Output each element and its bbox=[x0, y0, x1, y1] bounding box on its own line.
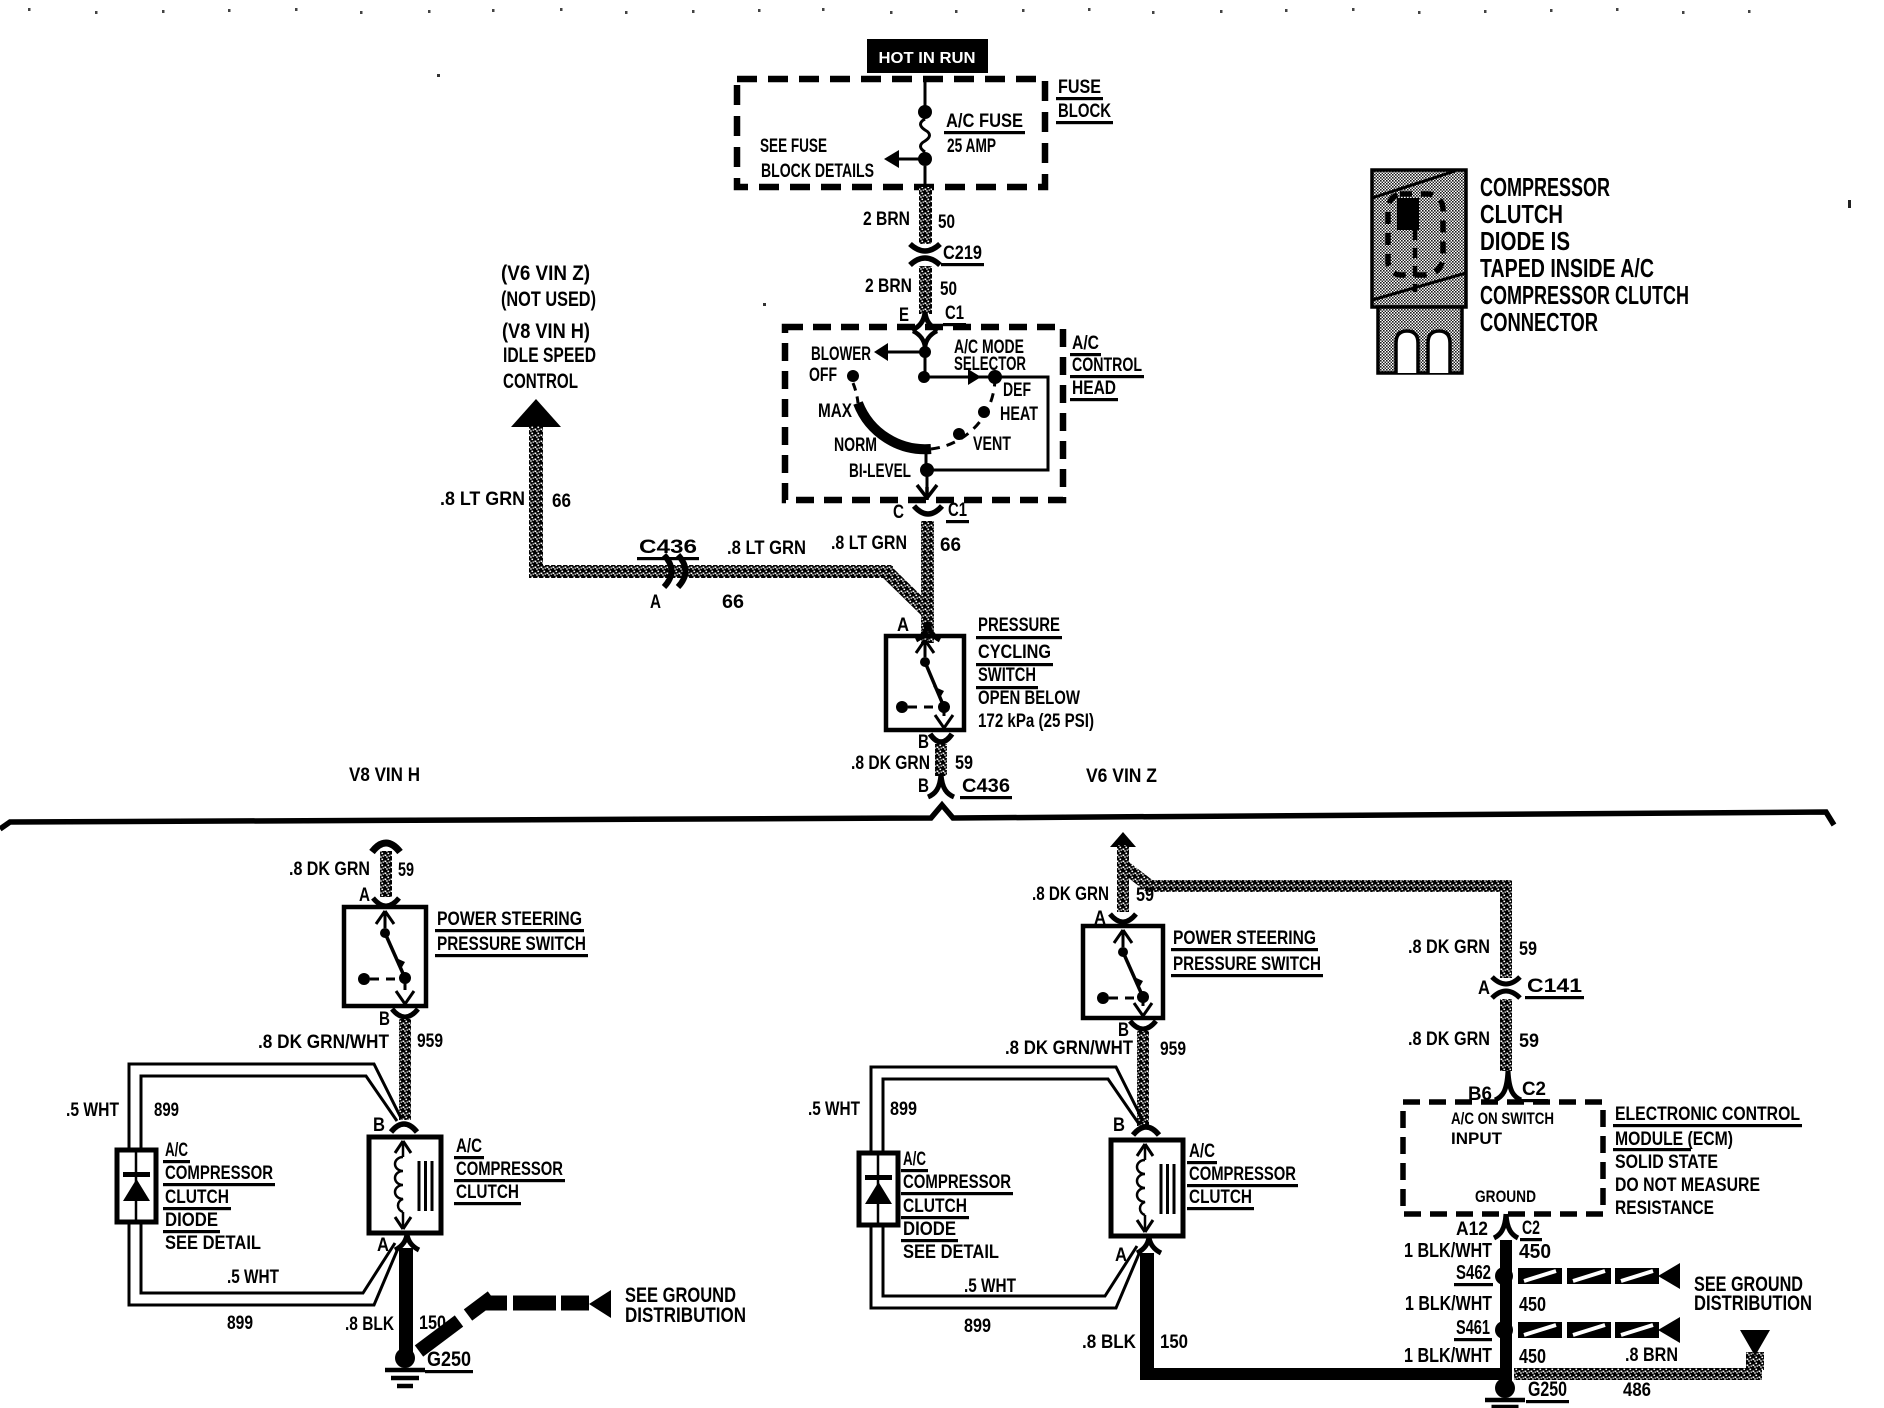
svg-text:450: 450 bbox=[1519, 1294, 1546, 1316]
svg-text:C436: C436 bbox=[639, 537, 697, 558]
svg-text:.8 LT GRN: .8 LT GRN bbox=[831, 533, 907, 554]
svg-text:450: 450 bbox=[1519, 1346, 1546, 1368]
svg-text:C1: C1 bbox=[945, 303, 964, 324]
svg-text:66: 66 bbox=[940, 535, 961, 556]
svg-text:C2: C2 bbox=[1522, 1079, 1546, 1100]
svg-text:C141: C141 bbox=[1527, 976, 1583, 997]
svg-text:A/C ON SWITCH: A/C ON SWITCH bbox=[1451, 1109, 1554, 1128]
svg-text:1 BLK/WHT: 1 BLK/WHT bbox=[1404, 1240, 1492, 1262]
svg-text:A/C: A/C bbox=[903, 1149, 926, 1170]
svg-text:DO NOT MEASURE: DO NOT MEASURE bbox=[1615, 1175, 1760, 1196]
svg-text:C436: C436 bbox=[962, 776, 1010, 797]
svg-text:899: 899 bbox=[964, 1316, 991, 1337]
svg-text:B: B bbox=[379, 1009, 390, 1030]
svg-text:A/C: A/C bbox=[1189, 1141, 1215, 1162]
svg-text:899: 899 bbox=[890, 1099, 917, 1120]
svg-text:.5 WHT: .5 WHT bbox=[808, 1099, 860, 1120]
svg-text:.8 DK GRN/WHT: .8 DK GRN/WHT bbox=[1005, 1038, 1133, 1059]
svg-text:GROUND: GROUND bbox=[1475, 1187, 1536, 1206]
svg-text:.5 WHT: .5 WHT bbox=[227, 1267, 279, 1288]
svg-text:DISTRIBUTION: DISTRIBUTION bbox=[625, 1304, 746, 1327]
svg-text:(NOT USED): (NOT USED) bbox=[501, 288, 596, 311]
svg-text:A/C FUSE: A/C FUSE bbox=[946, 111, 1023, 132]
svg-text:172 kPa (25 PSI): 172 kPa (25 PSI) bbox=[978, 711, 1094, 732]
svg-text:A: A bbox=[650, 592, 661, 613]
svg-text:PRESSURE SWITCH: PRESSURE SWITCH bbox=[437, 934, 586, 955]
svg-text:486: 486 bbox=[1623, 1380, 1651, 1401]
svg-text:DEF: DEF bbox=[1003, 380, 1031, 401]
svg-text:INPUT: INPUT bbox=[1451, 1129, 1503, 1148]
svg-text:C2: C2 bbox=[1522, 1218, 1540, 1239]
svg-text:59: 59 bbox=[955, 753, 973, 774]
svg-text:G250: G250 bbox=[427, 1348, 471, 1371]
svg-text:BI-LEVEL: BI-LEVEL bbox=[849, 461, 911, 482]
svg-text:BLOCK: BLOCK bbox=[1058, 101, 1111, 122]
svg-text:.8 DK GRN: .8 DK GRN bbox=[1408, 1029, 1490, 1050]
svg-text:HEAD: HEAD bbox=[1072, 378, 1116, 399]
svg-text:B: B bbox=[373, 1115, 385, 1136]
svg-text:OPEN BELOW: OPEN BELOW bbox=[978, 688, 1080, 709]
svg-text:DIODE IS: DIODE IS bbox=[1480, 226, 1570, 256]
svg-text:IDLE SPEED: IDLE SPEED bbox=[503, 344, 596, 367]
svg-text:(V6 VIN Z): (V6 VIN Z) bbox=[501, 262, 590, 285]
svg-text:CONTROL: CONTROL bbox=[1072, 355, 1142, 376]
svg-text:899: 899 bbox=[227, 1313, 253, 1334]
svg-text:.8 DK GRN: .8 DK GRN bbox=[289, 859, 370, 880]
svg-text:A: A bbox=[1478, 978, 1490, 999]
svg-text:VENT: VENT bbox=[973, 434, 1011, 455]
svg-text:A: A bbox=[377, 1235, 389, 1256]
svg-text:S461: S461 bbox=[1456, 1317, 1490, 1339]
svg-text:50: 50 bbox=[938, 212, 955, 233]
svg-text:50: 50 bbox=[940, 279, 957, 300]
svg-text:G250: G250 bbox=[1528, 1378, 1567, 1401]
svg-text:CONTROL: CONTROL bbox=[503, 370, 578, 393]
svg-text:CLUTCH: CLUTCH bbox=[1480, 199, 1563, 229]
svg-text:A/C: A/C bbox=[165, 1140, 188, 1161]
svg-text:B: B bbox=[1113, 1115, 1125, 1136]
svg-text:COMPRESSOR: COMPRESSOR bbox=[1189, 1164, 1296, 1185]
svg-text:MAX: MAX bbox=[818, 401, 852, 422]
svg-text:CLUTCH: CLUTCH bbox=[903, 1196, 967, 1217]
svg-text:TAPED INSIDE A/C: TAPED INSIDE A/C bbox=[1480, 253, 1654, 283]
svg-text:SEE DETAIL: SEE DETAIL bbox=[903, 1242, 999, 1263]
svg-text:.8 BRN: .8 BRN bbox=[1625, 1345, 1678, 1366]
svg-text:59: 59 bbox=[398, 860, 414, 881]
svg-text:A: A bbox=[897, 615, 909, 636]
svg-text:.5 WHT: .5 WHT bbox=[964, 1276, 1016, 1297]
svg-text:1 BLK/WHT: 1 BLK/WHT bbox=[1404, 1345, 1492, 1367]
svg-text:25 AMP: 25 AMP bbox=[947, 136, 996, 157]
svg-text:899: 899 bbox=[154, 1100, 179, 1121]
svg-text:COMPRESSOR: COMPRESSOR bbox=[903, 1172, 1011, 1193]
svg-text:A/C: A/C bbox=[1072, 333, 1099, 354]
svg-text:MODULE (ECM): MODULE (ECM) bbox=[1615, 1129, 1733, 1150]
svg-text:2 BRN: 2 BRN bbox=[865, 276, 912, 297]
svg-text:C219: C219 bbox=[943, 243, 982, 264]
svg-text:SEE FUSE: SEE FUSE bbox=[760, 136, 827, 157]
svg-text:V6 VIN Z: V6 VIN Z bbox=[1086, 766, 1157, 787]
svg-text:.8 BLK: .8 BLK bbox=[1082, 1332, 1136, 1353]
svg-text:CONNECTOR: CONNECTOR bbox=[1480, 307, 1598, 337]
svg-text:2 BRN: 2 BRN bbox=[863, 209, 910, 230]
svg-text:S462: S462 bbox=[1456, 1262, 1491, 1284]
svg-text:ELECTRONIC CONTROL: ELECTRONIC CONTROL bbox=[1615, 1104, 1800, 1125]
svg-text:(V8 VIN H): (V8 VIN H) bbox=[502, 320, 590, 343]
svg-text:V8 VIN H: V8 VIN H bbox=[349, 765, 420, 786]
svg-text:SEE DETAIL: SEE DETAIL bbox=[165, 1233, 261, 1254]
svg-text:B: B bbox=[918, 776, 929, 797]
svg-text:COMPRESSOR: COMPRESSOR bbox=[1480, 172, 1610, 202]
svg-text:150: 150 bbox=[1160, 1332, 1188, 1353]
svg-text:59: 59 bbox=[1136, 885, 1154, 906]
svg-text:66: 66 bbox=[552, 491, 571, 512]
svg-text:NORM: NORM bbox=[834, 435, 877, 456]
svg-text:SOLID STATE: SOLID STATE bbox=[1615, 1152, 1718, 1173]
svg-text:A: A bbox=[359, 885, 370, 906]
svg-text:1 BLK/WHT: 1 BLK/WHT bbox=[1405, 1293, 1492, 1315]
svg-text:SWITCH: SWITCH bbox=[978, 665, 1036, 686]
svg-text:BLOWER: BLOWER bbox=[811, 344, 871, 365]
svg-text:.8 DK GRN: .8 DK GRN bbox=[1408, 937, 1490, 958]
svg-text:.8 DK GRN: .8 DK GRN bbox=[851, 753, 930, 774]
svg-text:POWER STEERING: POWER STEERING bbox=[437, 909, 582, 930]
svg-text:PRESSURE SWITCH: PRESSURE SWITCH bbox=[1173, 954, 1321, 975]
svg-text:COMPRESSOR: COMPRESSOR bbox=[456, 1159, 563, 1180]
svg-text:A/C: A/C bbox=[456, 1136, 482, 1157]
svg-text:A: A bbox=[1115, 1245, 1127, 1266]
svg-text:C1: C1 bbox=[948, 500, 967, 521]
svg-text:59: 59 bbox=[1519, 1031, 1539, 1052]
svg-text:66: 66 bbox=[722, 592, 744, 613]
svg-text:.8 DK GRN/WHT: .8 DK GRN/WHT bbox=[258, 1032, 389, 1053]
svg-text:FUSE: FUSE bbox=[1058, 77, 1101, 98]
svg-text:HOT IN RUN: HOT IN RUN bbox=[879, 50, 976, 67]
svg-text:CLUTCH: CLUTCH bbox=[456, 1182, 519, 1203]
svg-text:COMPRESSOR: COMPRESSOR bbox=[165, 1163, 273, 1184]
svg-text:BLOCK DETAILS: BLOCK DETAILS bbox=[761, 161, 874, 182]
svg-text:HEAT: HEAT bbox=[1000, 404, 1038, 425]
svg-text:PRESSURE: PRESSURE bbox=[978, 615, 1060, 636]
svg-text:CYCLING: CYCLING bbox=[978, 642, 1051, 663]
svg-text:450: 450 bbox=[1519, 1241, 1551, 1263]
svg-text:59: 59 bbox=[1519, 939, 1537, 960]
svg-text:DISTRIBUTION: DISTRIBUTION bbox=[1694, 1292, 1812, 1315]
svg-text:COMPRESSOR CLUTCH: COMPRESSOR CLUTCH bbox=[1480, 280, 1689, 310]
svg-text:POWER STEERING: POWER STEERING bbox=[1173, 928, 1316, 949]
svg-text:.8 BLK: .8 BLK bbox=[345, 1314, 394, 1335]
svg-text:DIODE: DIODE bbox=[903, 1219, 956, 1240]
svg-text:.8 LT GRN: .8 LT GRN bbox=[440, 489, 525, 510]
svg-text:A12: A12 bbox=[1456, 1219, 1488, 1240]
svg-text:CLUTCH: CLUTCH bbox=[165, 1187, 229, 1208]
svg-text:B: B bbox=[918, 732, 929, 753]
svg-text:959: 959 bbox=[417, 1031, 443, 1052]
svg-text:.8 DK GRN: .8 DK GRN bbox=[1032, 884, 1109, 905]
svg-text:959: 959 bbox=[1160, 1039, 1186, 1060]
svg-text:.8 LT GRN: .8 LT GRN bbox=[727, 538, 806, 559]
svg-text:C: C bbox=[893, 502, 904, 523]
svg-text:CLUTCH: CLUTCH bbox=[1189, 1187, 1252, 1208]
svg-text:RESISTANCE: RESISTANCE bbox=[1615, 1198, 1714, 1219]
svg-text:.5 WHT: .5 WHT bbox=[66, 1100, 119, 1121]
svg-text:OFF: OFF bbox=[809, 365, 837, 386]
svg-text:E: E bbox=[899, 305, 909, 326]
svg-text:DIODE: DIODE bbox=[165, 1210, 218, 1231]
svg-text:SELECTOR: SELECTOR bbox=[954, 354, 1026, 375]
